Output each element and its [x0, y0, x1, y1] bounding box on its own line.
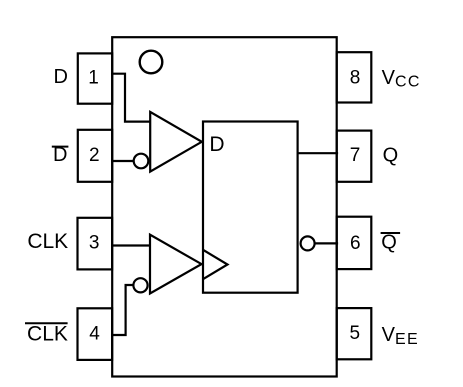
svg-text:Q: Q: [383, 144, 399, 166]
svg-text:Q: Q: [381, 231, 397, 253]
overline of CLKbar: [26, 322, 67, 324]
svg-text:7: 7: [350, 145, 361, 166]
wire pin 2 Dbar to input bubble: [112, 160, 133, 162]
wire pin 4 CLKbar to clock bubble: [112, 285, 132, 335]
clock edge-trigger symbol: [204, 251, 227, 279]
input buffer U2 triangle: [150, 112, 202, 172]
inverting bubble on Qbar output: [301, 236, 315, 250]
wire pin 3 CLK to clock buffer: [112, 244, 149, 246]
pin 6 box: [337, 217, 372, 269]
pin 8 box: [337, 52, 372, 102]
svg-text:1: 1: [88, 68, 99, 89]
D flip-flop U4 body: [203, 122, 298, 293]
inverting bubble on U3 CLKbar input: [133, 278, 147, 292]
pin 1 indicator circle: [140, 51, 163, 74]
pin 5 box: [337, 308, 372, 359]
pin 1 box: [78, 53, 112, 103]
pin 2 box: [78, 130, 112, 182]
svg-text:6: 6: [350, 233, 361, 254]
clock buffer U3 triangle: [150, 235, 202, 294]
IC body U1 package outline: [112, 37, 337, 376]
svg-text:8: 8: [350, 68, 361, 89]
pin 4 box: [78, 308, 113, 360]
svg-text:2: 2: [89, 145, 100, 166]
pin 3 box: [78, 218, 113, 270]
svg-text:VCC: VCC: [382, 67, 421, 91]
overline of Qbar: [382, 232, 400, 234]
svg-text:5: 5: [350, 323, 361, 344]
wire pin 1 D to input buffer: [112, 74, 149, 122]
inverting bubble on U2 Dbar input: [134, 154, 149, 169]
wire flip-flop Q output to pin 7: [298, 152, 337, 154]
svg-text:CLK: CLK: [27, 230, 68, 253]
overline of Dbar: [53, 146, 68, 148]
wire Qbar bubble to pin 6: [315, 242, 337, 244]
svg-text:CLK: CLK: [27, 323, 68, 346]
svg-text:D: D: [209, 133, 224, 156]
svg-text:3: 3: [89, 233, 100, 254]
pin 7 box: [337, 131, 372, 182]
svg-text:4: 4: [89, 324, 100, 345]
svg-text:D: D: [54, 66, 68, 88]
svg-text:VEE: VEE: [382, 324, 420, 348]
